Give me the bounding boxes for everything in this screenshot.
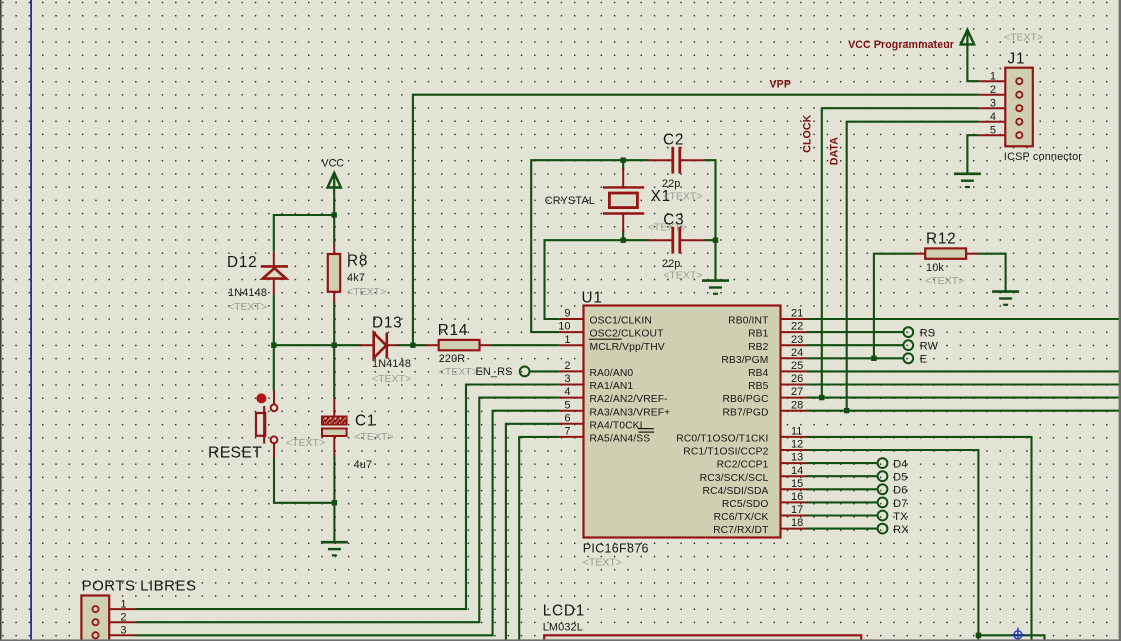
svg-text:<TEXT>: <TEXT> (925, 275, 964, 287)
svg-text:RA2/AN2/VREF-: RA2/AN2/VREF- (590, 394, 668, 405)
svg-text:23: 23 (791, 334, 803, 346)
wire EN_RS terminal to U1 pin 2 (530, 370, 560, 372)
svg-text:10k: 10k (926, 262, 944, 274)
crystal X1 bottom pin stub (622, 214, 624, 233)
svg-text:RC0/T1OSO/T1CKI: RC0/T1OSO/T1CKI (676, 434, 768, 445)
svg-text:RB7/PGD: RB7/PGD (722, 407, 768, 418)
power symbol VCC arrow (328, 173, 341, 188)
crystal X1 top electrode bar (603, 186, 644, 188)
wire D12 bottom to reset button (273, 295, 275, 392)
svg-text:18: 18 (791, 517, 803, 529)
svg-text:2: 2 (564, 360, 570, 372)
wire VCC arrow stem down to R8 (333, 188, 335, 244)
svg-text:<TEXT>: <TEXT> (347, 286, 386, 298)
svg-text:28: 28 (791, 399, 803, 411)
svg-text:<TEXT>: <TEXT> (439, 366, 478, 378)
svg-text:J1: J1 (1008, 51, 1026, 68)
svg-text:26: 26 (791, 373, 803, 385)
ground symbol below C1 (321, 541, 348, 544)
connector J1 body (1005, 68, 1033, 147)
svg-text:10: 10 (558, 321, 570, 333)
resistor R14 right pin stub (480, 344, 491, 346)
svg-text:<TEXT>: <TEXT> (583, 557, 622, 569)
wire R8 bottom pin row (333, 302, 335, 345)
svg-text:RA1/AN1: RA1/AN1 (590, 381, 634, 392)
wire U1 pin 14 to D5 terminal (807, 475, 878, 477)
svg-text:D6: D6 (893, 485, 907, 497)
connector J1 pin stubs (979, 80, 1006, 82)
wire U1 pin 22 RB1 to RS terminal (807, 331, 904, 333)
wire R14 right to U1 pin 1 (490, 344, 560, 346)
svg-text:VCC: VCC (322, 157, 345, 169)
svg-text:RC6/TX/CK: RC6/TX/CK (714, 512, 769, 523)
wire U1 pin 5 (RA3) to ports libres (136, 411, 560, 636)
svg-text:RC2/CCP1: RC2/CCP1 (717, 460, 769, 471)
node junction R8/C1 tee (332, 343, 337, 348)
terminal D4 circle (878, 458, 888, 468)
svg-text:2: 2 (120, 611, 126, 623)
svg-text:VPP: VPP (770, 78, 792, 90)
svg-text:<TEXT>: <TEXT> (663, 269, 702, 281)
svg-text:12: 12 (791, 439, 803, 451)
push button RESET top pin stub (273, 391, 275, 405)
svg-text:13: 13 (791, 452, 803, 464)
svg-text:22: 22 (791, 321, 803, 333)
terminal D6 circle (878, 484, 888, 494)
svg-text:2: 2 (990, 84, 996, 96)
svg-text:MCLR/Vpp/THV: MCLR/Vpp/THV (590, 342, 665, 353)
svg-text:R12: R12 (926, 231, 956, 248)
wire VPP net: MCLR junction up and across to J1 pin 2 (413, 95, 979, 346)
op-amp-style main IC U1 PIC16F876 body (584, 306, 781, 538)
svg-text:16: 16 (791, 491, 803, 503)
diode D13 cathode bar (385, 333, 388, 359)
wire C3 right to rail junction (704, 239, 716, 241)
node junction VPP tee (410, 343, 415, 348)
wire LCD row horizontal from RC1 junction (978, 635, 1044, 641)
push button RESET cap dot (256, 393, 266, 403)
svg-text:1N4148: 1N4148 (228, 287, 267, 299)
wire C1 top (333, 345, 335, 398)
terminal E circle (903, 353, 913, 363)
crystal X1 body (609, 193, 637, 208)
svg-text:R14: R14 (438, 322, 468, 339)
capacitor C1 top plate hatched (322, 417, 347, 425)
svg-text:RS: RS (920, 327, 935, 339)
svg-text:3: 3 (120, 625, 126, 637)
svg-text:E: E (920, 354, 927, 366)
wire U1 pin 7 (RA5) to ports libres (519, 437, 560, 641)
resistor R14 body (439, 340, 480, 350)
svg-text:<TEXT>: <TEXT> (286, 437, 325, 449)
diode D13 triangle (374, 333, 387, 358)
svg-text:RA4/T0CKI: RA4/T0CKI (590, 420, 643, 431)
svg-text:CRYSTAL: CRYSTAL (545, 195, 595, 207)
svg-text:RESET: RESET (208, 444, 262, 461)
wire crystal top rail to OSC2 (U1 pin 10) (531, 160, 623, 332)
wire C1 bottom to ground (333, 455, 335, 543)
node junction E net R12 (871, 356, 876, 361)
svg-text:<TEXT>: <TEXT> (228, 301, 267, 313)
ground symbol below J1 (954, 173, 981, 176)
svg-text:17: 17 (791, 504, 803, 516)
diode D12 top pin stub (273, 252, 275, 266)
power symbol VCC Programmateur arrow (961, 30, 974, 45)
diode D12 triangle (263, 268, 287, 278)
svg-text:9: 9 (564, 308, 570, 320)
svg-text:LM032L: LM032L (543, 622, 583, 634)
capacitor C1 bottom pin stub (333, 436, 335, 455)
svg-text:RC7/RX/DT: RC7/RX/DT (713, 525, 769, 536)
svg-text:7: 7 (564, 426, 570, 438)
svg-text:OSC1/CLKIN: OSC1/CLKIN (590, 316, 652, 327)
capacitor C2 plates (671, 147, 674, 174)
wire R12 right to ground (977, 254, 1006, 292)
terminal TX circle (878, 511, 888, 521)
svg-text:<TEXT>: <TEXT> (372, 373, 411, 385)
wire crystal top pin stub connection (622, 160, 624, 170)
terminal D7 circle (878, 498, 888, 508)
svg-text:3: 3 (990, 97, 996, 109)
capacitor C3 right pin stub (681, 239, 705, 241)
svg-text:4: 4 (990, 111, 996, 123)
wire VCC Programmateur arrow to J1 pin 1 (967, 44, 978, 81)
wire U1 pin 25 RB4 to right edge (807, 370, 1121, 372)
wire U1 pin 6 (RA4) to ports libres (506, 424, 560, 641)
svg-text:RC5/SDO: RC5/SDO (722, 499, 769, 510)
wire U1 pin 26 RB5 to right edge (807, 383, 1121, 385)
wire R12 left to E net vertical (874, 254, 915, 359)
terminal RS circle (903, 327, 913, 337)
resistor R8 body (328, 254, 340, 292)
push button RESET bottom contact (271, 436, 278, 443)
U1 right pin stubs pins 21-28 11-18 (781, 318, 807, 320)
svg-text:1: 1 (990, 70, 996, 82)
svg-text:D5: D5 (893, 472, 907, 484)
push button RESET bottom pin stub (273, 443, 275, 458)
svg-text:4k7: 4k7 (347, 272, 365, 284)
svg-text:D13: D13 (372, 315, 402, 332)
capacitor C2 right pin stub (681, 159, 705, 161)
resistor R8 top pin stub (333, 243, 335, 254)
wire crystal bottom junction to C3 (623, 239, 649, 241)
wire U1 pin 15 to D6 terminal (807, 488, 878, 490)
terminal RX circle (878, 524, 888, 534)
crystal X1 bottom electrode bar (603, 212, 644, 214)
svg-text:C1: C1 (355, 413, 376, 430)
svg-text:4: 4 (564, 386, 570, 398)
connector J1 pin circles (1016, 78, 1022, 84)
push button RESET body (256, 413, 265, 436)
wire U1 pin 17 to TX terminal (807, 514, 878, 516)
svg-text:5: 5 (990, 124, 996, 136)
U1 left pin stubs pins 9 10 1 2 3 4 5 6 7 (560, 318, 584, 320)
diode D13 cathode pin stub (387, 344, 397, 346)
svg-text:21: 21 (791, 308, 803, 320)
wire MCLR row: D12 col to R8 col to D13 anode (274, 344, 361, 346)
resistor R14 left pin stub (426, 344, 439, 346)
svg-text:RB6/PGC: RB6/PGC (722, 394, 768, 405)
svg-text:22p: 22p (662, 258, 681, 270)
svg-text:RB2: RB2 (748, 342, 769, 353)
svg-text:25: 25 (791, 360, 803, 372)
svg-text:OSC2/CLKOUT: OSC2/CLKOUT (590, 329, 665, 340)
resistor R12 right pin stub (966, 253, 977, 255)
wire crystal top junction to C2 (623, 159, 649, 161)
wire U1 pin 16 to D7 terminal (807, 501, 878, 503)
svg-text:ICSP connector: ICSP connector (1004, 151, 1082, 163)
svg-text:C3: C3 (663, 212, 684, 229)
wire U1 pin 12 RC1 down to LCD row (807, 450, 979, 641)
wire J1 pin 5 to ground (967, 135, 978, 174)
diode D13 anode pin stub (360, 344, 373, 346)
capacitor C3 left pin stub (649, 239, 672, 241)
svg-text:D12: D12 (227, 254, 257, 271)
svg-text:11: 11 (791, 426, 802, 438)
diode D12 bottom pin stub (273, 280, 275, 295)
capacitor C1 bottom plate (322, 429, 347, 437)
wire D13 cathode to VPP junction to R14 (397, 344, 426, 346)
svg-text:PIC16F876: PIC16F876 (583, 542, 649, 556)
svg-text:DATA: DATA (829, 137, 841, 165)
svg-text:24: 24 (791, 347, 803, 359)
wire U1 pin 27 RB6 to right edge (807, 397, 1121, 399)
svg-text:U1: U1 (582, 290, 603, 307)
ground symbol below C2 C3 rail (702, 279, 729, 282)
wire U1 pin 23 RB2 to RW terminal (807, 344, 904, 346)
wire U1 pin 13 to D4 terminal (807, 462, 878, 464)
terminal EN_RS circle (520, 367, 530, 377)
svg-text:RB5: RB5 (748, 381, 769, 392)
resistor R8 bottom pin stub (333, 292, 335, 302)
svg-text:EN_RS: EN_RS (476, 366, 513, 378)
resistor R12 body (925, 248, 966, 258)
U1 RA4/T0CKI trailing line (638, 428, 654, 430)
wire J1 pin 4 to DATA vertical to U1 pin 28 (847, 122, 979, 411)
svg-text:<TEXT>: <TEXT> (354, 431, 393, 443)
resistor R12 left pin stub (914, 253, 925, 255)
svg-text:5: 5 (564, 399, 570, 411)
crystal X1 top pin stub (622, 168, 624, 187)
svg-text:6: 6 (564, 412, 570, 424)
wire U1 pin 24 RB3 to E terminal (807, 357, 904, 359)
svg-text:RX: RX (893, 524, 909, 536)
node junction crystal top (621, 158, 626, 163)
svg-text:LCD1: LCD1 (543, 603, 585, 620)
wire U1 pin 11 RC0 down right side (807, 437, 1032, 641)
svg-text:RC1/T1OSI/CCP2: RC1/T1OSI/CCP2 (683, 447, 768, 458)
node junction C1/ground tee (332, 500, 337, 505)
wire U1 pin 21 RB0 to right edge (807, 318, 1121, 320)
svg-text:RC4/SDI/SDA: RC4/SDI/SDA (703, 486, 769, 497)
svg-text:D4: D4 (893, 459, 907, 471)
capacitor C1 top pin stub (333, 398, 335, 417)
node junction D12/button tee (271, 343, 276, 348)
svg-text:RA5/AN4/SS: RA5/AN4/SS (590, 434, 651, 445)
terminal RW circle (903, 340, 913, 350)
node junction VCC tee (332, 212, 337, 217)
svg-text:CLOCK: CLOCK (801, 114, 813, 152)
wire crystal bottom pin stub connection (622, 230, 624, 240)
wire U1 pin 4 (RA2) to ports libres (136, 398, 560, 623)
svg-text:RB0/INT: RB0/INT (728, 316, 769, 327)
ground symbol below R12 (992, 290, 1019, 293)
connector PORTS LIBRES body (81, 596, 109, 641)
capacitor C2 left pin stub (649, 159, 672, 161)
wire VCC top rail from D12 column to R8 column (274, 215, 334, 252)
svg-text:3: 3 (564, 373, 570, 385)
node junction DATA pin28 (844, 408, 849, 413)
svg-text:RW: RW (920, 340, 939, 352)
LCD1 body top edge (544, 635, 861, 641)
svg-text:RC3/SCK/SCL: RC3/SCK/SCL (700, 473, 769, 484)
svg-text:220R: 220R (439, 353, 466, 365)
svg-text:D7: D7 (893, 498, 907, 510)
wire U1 pin 18 to RX terminal (807, 528, 878, 530)
wire C2 right to right rail (704, 160, 716, 280)
svg-text:RB3/PGM: RB3/PGM (721, 355, 768, 366)
node junction C3 rail (713, 238, 718, 243)
svg-text:RA3/AN3/VREF+: RA3/AN3/VREF+ (590, 407, 671, 418)
push button RESET top contact (271, 404, 278, 411)
svg-text:<TEXT>: <TEXT> (1004, 32, 1043, 44)
node junction RC1 LCD row (976, 633, 981, 638)
terminal D5 circle (878, 471, 888, 481)
wire U1 pin 28 RB7 to right edge (807, 410, 1121, 412)
svg-text:RB4: RB4 (748, 368, 769, 379)
svg-text:RA0/AN0: RA0/AN0 (590, 368, 634, 379)
capacitor C3 plates (671, 227, 674, 254)
U1 RA5 SS overline (639, 431, 655, 433)
svg-text:4u7: 4u7 (354, 459, 373, 471)
svg-text:15: 15 (791, 478, 803, 490)
svg-text:1: 1 (564, 334, 570, 346)
diode D12 cathode bar (261, 265, 288, 268)
node junction CLOCK pin27 (819, 395, 824, 400)
svg-text:R8: R8 (347, 253, 368, 270)
svg-text:TX: TX (893, 511, 908, 523)
svg-text:1: 1 (120, 598, 126, 610)
svg-text:C2: C2 (663, 132, 684, 149)
wire button bottom to C1 bottom junction (274, 458, 334, 503)
node junction crystal bottom (621, 238, 626, 243)
svg-text:VCC Programmateur: VCC Programmateur (848, 39, 954, 51)
svg-text:RB1: RB1 (748, 329, 769, 340)
svg-text:27: 27 (791, 386, 803, 398)
svg-text:22p: 22p (662, 178, 681, 190)
origin marker crosshair (1011, 628, 1025, 641)
wire crystal bottom rail to OSC1 (U1 pin 9) (545, 240, 624, 319)
wire U1 pin 3 (RA1) to ports libres (136, 385, 560, 610)
U1 MCLR overline (589, 338, 622, 340)
connector PORTS LIBRES pin circles (92, 606, 98, 612)
connector PORTS LIBRES pin stubs (109, 608, 136, 610)
svg-text:<TEXT>: <TEXT> (663, 191, 702, 203)
svg-text:14: 14 (791, 465, 803, 477)
push button RESET actuator stem (263, 406, 265, 444)
svg-text:PORTS LIBRES: PORTS LIBRES (82, 578, 197, 595)
svg-text:1N4148: 1N4148 (372, 358, 411, 370)
wire J1 pin 3 to CLOCK vertical to U1 pin 27 (822, 108, 979, 397)
